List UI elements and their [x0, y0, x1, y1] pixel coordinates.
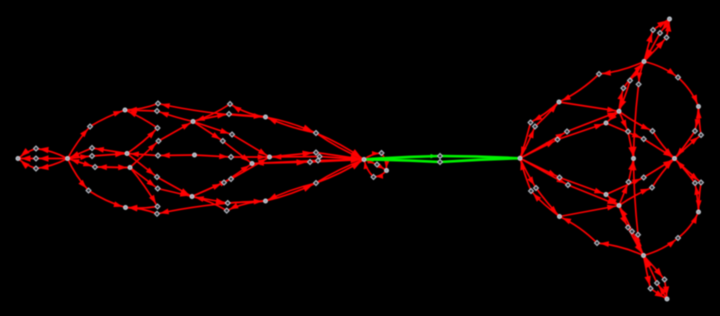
node da (diamond) — [34, 146, 39, 151]
edge c7-e2-c3 — [125, 108, 193, 122]
edge c9-f6-c12 — [192, 157, 270, 197]
edge a1-d3-c5 — [68, 159, 131, 171]
node q11 (diamond) — [699, 133, 704, 138]
edge c7-f3b-c11 — [193, 122, 252, 164]
node q15 (diamond) — [664, 35, 669, 40]
node f2 (diamond) — [227, 112, 232, 117]
node m6 (diamond) — [626, 225, 631, 230]
node c12 (circle) — [268, 155, 272, 159]
node q12 (diamond) — [626, 129, 631, 134]
edge ra-q1-rh — [520, 102, 559, 158]
node f4 (diamond) — [229, 155, 234, 160]
node rtop (circle) — [668, 17, 672, 21]
edge rt2-m7-rb2 — [619, 206, 644, 256]
node dc (diamond) — [34, 166, 39, 171]
edge c10-g1-snk — [266, 117, 365, 160]
node rc (circle) — [604, 121, 608, 125]
edge c9-f7-c13 — [192, 197, 266, 205]
edge snk-h1-lp — [364, 151, 389, 171]
edge a1-da-a0 — [18, 147, 68, 159]
edge c8-e4-c4 — [127, 151, 195, 158]
edge c13-f8-c9 — [192, 196, 266, 210]
node nd2 (diamond) — [641, 175, 646, 180]
node c5 (circle) — [128, 166, 132, 170]
node q13 (diamond) — [651, 28, 656, 33]
edge rt2-m8-rf — [631, 159, 644, 256]
node f3 (diamond) — [230, 132, 235, 137]
node c7 (circle) — [191, 120, 195, 124]
node rb (circle) — [617, 109, 621, 113]
node h1 (diamond) — [379, 151, 384, 156]
edge rb2-m12-rf — [619, 159, 634, 206]
node snk (circle) — [362, 158, 366, 162]
node ra (circle) — [557, 100, 561, 104]
edge rh-q2-ra — [520, 102, 559, 158]
node gm2 (diamond) — [438, 160, 443, 165]
node re (diamond) — [650, 129, 655, 134]
node lp (circle) — [385, 169, 389, 173]
node m7 (diamond) — [630, 229, 635, 234]
edge c7-f3-c12 — [193, 122, 270, 158]
edge rt1-q13-rtop — [644, 19, 670, 62]
edge rh-q3-rc — [520, 123, 606, 158]
edge a1-d2b-c4 — [68, 151, 128, 160]
edge rh-m3-rc2 — [520, 158, 606, 194]
node c10 (circle) — [264, 115, 268, 119]
node e5c (diamond) — [155, 204, 160, 209]
edge rt1-q8-rf — [631, 62, 644, 159]
node g1 (diamond) — [314, 131, 319, 136]
node d4 (diamond) — [86, 188, 91, 193]
edge rh-q4-rb — [520, 111, 619, 158]
edge rt2-m9-rd2 — [644, 212, 699, 256]
node rb2 (circle) — [617, 204, 621, 208]
edge lp-h3-snk — [364, 160, 387, 179]
edge rt2-m14-rbot — [644, 256, 670, 300]
edge c7-f2-c10 — [193, 113, 266, 122]
edge rb-re-rg — [619, 111, 675, 158]
edge rd2-m10-rg — [675, 159, 701, 213]
node f7 (diamond) — [225, 201, 230, 206]
edge rt1-q6-rb — [619, 62, 644, 112]
edge rt1-q15-rtop — [644, 19, 671, 62]
edge c5-e3-c7 — [130, 122, 193, 168]
edge rg-m11-rd2 — [675, 159, 702, 213]
edge snk-gm1-rh green — [364, 154, 520, 160]
node db (diamond) — [34, 156, 39, 161]
node rd2 (circle) — [697, 210, 701, 214]
node c4 (circle) — [125, 152, 129, 156]
node q2 (diamond) — [533, 124, 538, 129]
edge snk-g1-c10 — [266, 117, 365, 160]
node m5 (diamond) — [595, 241, 600, 246]
node e1 (diamond) — [156, 101, 161, 106]
edge c4-e5b-c9 — [127, 154, 192, 197]
edge c13-e6-c6 — [126, 201, 266, 214]
edge rt2-m5-ra2 — [560, 217, 644, 256]
node q1 (diamond) — [528, 120, 533, 125]
edge rt1-q5-ra — [559, 62, 644, 103]
edge ra-rb — [559, 102, 619, 112]
node f1 (diamond) — [228, 102, 233, 107]
node rf (circle) — [632, 157, 636, 161]
node c8 (circle) — [193, 153, 197, 157]
node d1 (diamond) — [88, 124, 93, 129]
node g2 (diamond) — [314, 150, 319, 155]
edge ra2-rb2 — [560, 205, 620, 217]
edge c8-f4-c12 — [195, 154, 270, 160]
node a1 (circle) — [66, 157, 70, 161]
node f5 (diamond) — [222, 180, 227, 185]
edge rb-q12-rf — [619, 111, 634, 158]
node m2 (diamond) — [534, 186, 539, 191]
edge rb2-m6-rt2 — [619, 206, 644, 256]
edge c5-d3-a1 — [68, 159, 131, 171]
node m10 (diamond) — [693, 181, 698, 186]
node a0 (circle) — [16, 157, 20, 161]
node c6 (circle) — [124, 206, 128, 210]
node m4 (diamond) — [566, 183, 571, 188]
node d3 (diamond) — [93, 165, 98, 170]
edge rbot-m13-rt2 — [644, 256, 668, 300]
edge rh-gm2-snk green — [364, 157, 520, 162]
node q6 (diamond) — [628, 78, 633, 83]
node m8 (diamond) — [636, 232, 641, 237]
node h2 (diamond) — [375, 162, 380, 167]
node q5 (diamond) — [597, 72, 602, 77]
node nd1 (diamond) — [641, 137, 646, 142]
edge rt2-m15-rbot — [644, 256, 668, 300]
node e5 (diamond) — [155, 186, 160, 191]
edge rc-nd1-rg — [606, 123, 675, 159]
edge rc2-nd2-rg — [606, 159, 675, 195]
edge a1-db-a0 — [18, 155, 68, 161]
node rc2 (circle) — [604, 193, 608, 197]
node e6 (diamond) — [155, 211, 160, 216]
node c3 (circle) — [123, 108, 127, 112]
node e2 (diamond) — [155, 109, 160, 114]
edge rb-rc — [606, 111, 619, 123]
node ra2 (circle) — [558, 215, 562, 219]
edge snk-g4-c12 — [270, 154, 365, 160]
edge c10-e1-c3 — [125, 103, 266, 117]
node rbot (circle) — [665, 297, 669, 301]
edge c4-e2c-c3 — [125, 110, 158, 154]
node q7 (diamond) — [621, 86, 626, 91]
edge c12-g2-snk — [270, 151, 365, 161]
node q3 (diamond) — [555, 137, 560, 142]
edge rb2-re2-rg — [619, 159, 675, 206]
node m3 (diamond) — [557, 175, 562, 180]
edge snk-g6-c11 — [252, 160, 364, 166]
node q14 (diamond) — [658, 31, 663, 36]
node g4 (diamond) — [317, 154, 322, 159]
node m1 (diamond) — [529, 189, 534, 194]
node rt2 (circle) — [642, 254, 646, 258]
node d2a (diamond) — [90, 146, 95, 151]
node h3 (diamond) — [371, 175, 376, 180]
edge rg-q11-rd — [675, 107, 702, 159]
node m13 (diamond) — [655, 281, 660, 286]
node c11 (circle) — [250, 162, 254, 166]
edge a1-d4-c6 — [68, 159, 126, 208]
node f8 (diamond) — [224, 208, 229, 213]
node e2c (diamond) — [155, 126, 160, 131]
node q8 (diamond) — [636, 82, 641, 87]
node c13 (circle) — [264, 199, 268, 203]
edge a1-d1-c3 — [68, 110, 126, 159]
edge c5-e5-c9 — [130, 168, 192, 197]
node q9 (diamond) — [676, 75, 681, 80]
node rt1 (circle) — [642, 60, 646, 64]
node rd (circle) — [697, 105, 701, 109]
node g6 (diamond) — [316, 158, 321, 163]
node g5 (diamond) — [314, 181, 319, 186]
edge c13-g5-snk — [266, 160, 365, 202]
edge c9-f5-c11 — [192, 164, 252, 197]
edge rb-q7-rt1 — [617, 62, 644, 112]
node gm1 (diamond) — [438, 154, 443, 159]
edge rh-m2-ra2 — [520, 158, 560, 216]
edge c11-g3-snk — [252, 157, 364, 166]
edge rb2-rc2 — [606, 195, 619, 206]
node e5b (diamond) — [155, 175, 160, 180]
node q10 (diamond) — [693, 129, 698, 134]
node f3b (diamond) — [220, 139, 225, 144]
node q4 (diamond) — [565, 129, 570, 134]
edge c4-d2a-a1 — [68, 147, 128, 159]
node m12 (diamond) — [626, 180, 631, 185]
node m14 (diamond) — [662, 277, 667, 282]
edge rtop-q14-rt1 — [644, 19, 670, 62]
node m9 (diamond) — [676, 236, 681, 241]
node m11 (diamond) — [699, 180, 704, 185]
edge rd-q10-rg — [675, 107, 701, 159]
edge c5-e5c-c6 — [126, 168, 158, 212]
edge rt1-q9-rd — [644, 62, 699, 107]
edge ra2-m1-rh — [520, 158, 560, 216]
edge rh-m4-rb2 — [520, 158, 619, 205]
node d2b (diamond) — [90, 154, 95, 159]
node m15 (diamond) — [648, 286, 653, 291]
node e3 (diamond) — [156, 139, 161, 144]
node rh (circle) — [518, 156, 522, 160]
node e4 (diamond) — [156, 153, 161, 158]
node re2 (diamond) — [650, 185, 655, 190]
node rg (circle) — [673, 157, 677, 161]
edge c10-f1-c7 — [193, 104, 266, 122]
node g3 (diamond) — [308, 160, 313, 165]
edge a1-dc-a0 — [18, 159, 68, 171]
node f6 (diamond) — [229, 177, 234, 182]
edge snk-h2-lp — [364, 159, 387, 171]
node c9 (circle) — [190, 195, 194, 199]
edge snk-g5-c13 — [266, 160, 365, 202]
